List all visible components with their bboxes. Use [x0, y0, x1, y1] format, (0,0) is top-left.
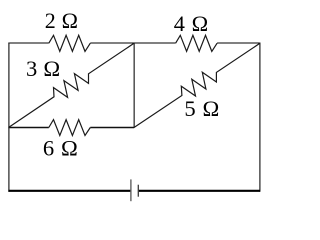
wire left vertical — [8, 43, 10, 192]
wire right vertical — [259, 43, 261, 192]
battery long plate — [130, 179, 132, 201]
wire bottom left — [8, 190, 130, 192]
resistor R3 3-ohm diagonal — [9, 43, 134, 127]
resistor R5 5-ohm diagonal — [134, 43, 260, 127]
svg-text:2 Ω: 2 Ω — [45, 8, 78, 33]
svg-text:4 Ω: 4 Ω — [174, 11, 209, 36]
resistor R2 4-ohm zigzag — [176, 35, 218, 51]
wire top-middle segment — [90, 42, 175, 44]
wire bottom right — [138, 190, 260, 192]
wire middle-horizontal left segment — [8, 127, 48, 129]
wire middle vertical — [133, 43, 135, 128]
resistor R4 6-ohm zigzag — [49, 120, 91, 136]
wire top-right segment — [217, 42, 260, 44]
battery short plate — [137, 185, 139, 197]
svg-text:3 Ω: 3 Ω — [26, 56, 60, 81]
wire middle-horizontal right segment — [90, 127, 134, 129]
svg-text:5 Ω: 5 Ω — [184, 96, 220, 121]
resistor R1 2-ohm zigzag — [49, 35, 91, 51]
svg-text:6 Ω: 6 Ω — [43, 136, 79, 161]
wire top-left segment — [8, 42, 48, 44]
